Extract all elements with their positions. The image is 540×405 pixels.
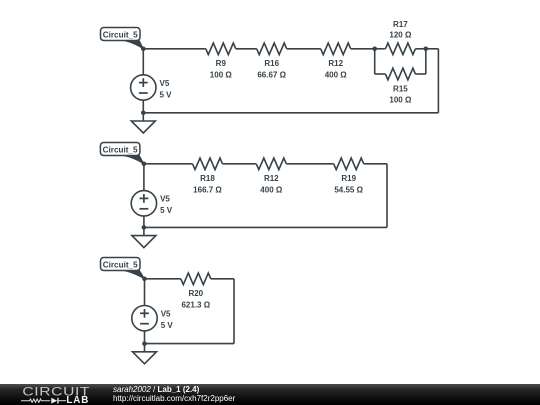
svg-text:5 V: 5 V	[160, 206, 173, 215]
wire	[375, 48, 386, 50]
wire	[286, 163, 333, 165]
resistor R15	[385, 68, 415, 104]
voltage source V5	[131, 191, 173, 216]
svg-text:621.3 Ω: 621.3 Ω	[181, 301, 210, 310]
ground	[133, 344, 157, 364]
svg-text:5 V: 5 V	[160, 90, 173, 99]
wire	[223, 163, 257, 165]
wire	[415, 73, 425, 75]
svg-text:R19: R19	[341, 174, 356, 183]
wire	[386, 164, 388, 228]
svg-text:R17: R17	[393, 20, 408, 29]
footer title text	[113, 384, 533, 404]
svg-text:5 V: 5 V	[161, 321, 174, 330]
wire	[211, 278, 234, 280]
resistor R16	[257, 43, 287, 80]
wire	[426, 48, 439, 50]
svg-text:66.67 Ω: 66.67 Ω	[257, 71, 286, 80]
svg-text:120 Ω: 120 Ω	[389, 31, 412, 40]
node parallel left	[372, 47, 377, 52]
svg-text:Circuit_5: Circuit_5	[103, 30, 138, 40]
wire	[144, 279, 146, 306]
svg-text:R12: R12	[328, 59, 343, 68]
node bottom net circuit 2	[142, 225, 147, 230]
node top net circuit 3	[142, 277, 147, 282]
svg-text:400 Ω: 400 Ω	[325, 71, 348, 80]
net label Circuit_5	[100, 143, 143, 164]
node bottom net circuit 3	[142, 341, 147, 346]
resistor R20	[181, 273, 211, 310]
wire	[437, 49, 439, 113]
wire	[143, 164, 145, 191]
svg-text:100 Ω: 100 Ω	[210, 71, 233, 80]
ground	[132, 227, 156, 247]
wire	[144, 226, 387, 228]
resistor R12	[321, 43, 351, 80]
svg-text:R15: R15	[393, 84, 408, 93]
svg-text:LAB: LAB	[66, 395, 89, 405]
node bottom net circuit 1	[141, 111, 146, 116]
ground	[131, 113, 155, 133]
svg-text:V5: V5	[161, 310, 171, 319]
voltage source V5	[132, 306, 174, 331]
svg-text:V5: V5	[160, 79, 170, 88]
wire	[145, 278, 181, 280]
node top net circuit 2	[142, 162, 147, 167]
svg-text:Circuit_5: Circuit_5	[103, 260, 138, 270]
wire	[143, 112, 438, 114]
svg-text:R20: R20	[188, 289, 203, 298]
footer url	[113, 394, 533, 404]
wire	[236, 48, 257, 50]
svg-text:R9: R9	[216, 59, 227, 68]
svg-text:R18: R18	[200, 174, 215, 183]
node top net circuit 1	[141, 47, 146, 52]
wire	[287, 48, 321, 50]
resistor R12 (circuit 2)	[256, 158, 286, 195]
wire	[351, 48, 375, 50]
wire	[375, 73, 386, 75]
wire	[142, 49, 144, 75]
node parallel right	[424, 47, 429, 52]
net label Circuit_5	[101, 28, 144, 49]
wire	[143, 48, 206, 50]
logo diode	[51, 398, 57, 404]
wire	[142, 100, 144, 113]
wire	[374, 49, 376, 74]
resistor R9	[206, 43, 236, 80]
wire	[364, 163, 387, 165]
wire	[144, 163, 193, 165]
svg-text:R16: R16	[264, 59, 279, 68]
svg-text:100 Ω: 100 Ω	[389, 96, 412, 105]
svg-text:166.7 Ω: 166.7 Ω	[193, 186, 222, 195]
wire	[415, 48, 425, 50]
wire	[145, 343, 235, 345]
resistor R18	[193, 158, 223, 195]
net label Circuit_5	[101, 258, 145, 279]
svg-text:54.55 Ω: 54.55 Ω	[334, 186, 363, 195]
wire	[143, 216, 145, 227]
footer bar	[0, 384, 540, 405]
svg-text:R12: R12	[264, 174, 279, 183]
voltage source V5	[131, 75, 173, 100]
svg-text:Circuit_5: Circuit_5	[103, 145, 138, 155]
logo resistor squiggle	[21, 399, 50, 402]
svg-text:V5: V5	[160, 195, 170, 204]
svg-text:400 Ω: 400 Ω	[260, 186, 283, 195]
resistor R19	[334, 158, 364, 195]
wire	[425, 49, 427, 74]
resistor R17	[385, 20, 415, 55]
wire	[233, 279, 235, 344]
wire	[144, 331, 146, 344]
